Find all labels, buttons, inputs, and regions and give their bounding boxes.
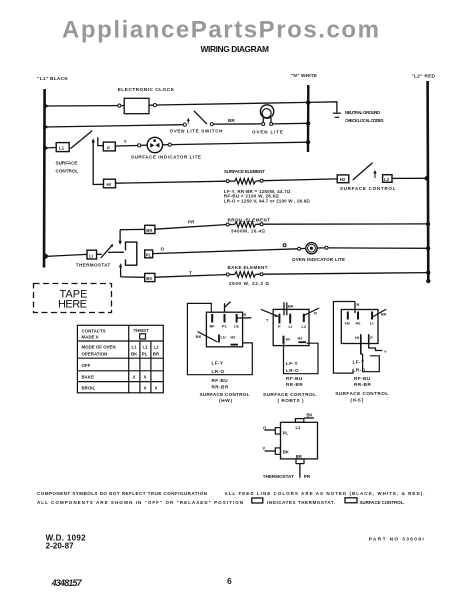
K-S terminal HI [360,334,362,354]
svg-text:O: O [161,246,165,251]
svg-text:P: P [107,145,110,150]
svg-text:L1: L1 [143,345,149,350]
wire L1 to surface control terminal [45,147,56,150]
svg-text:3400W, 16.4Ω: 3400W, 16.4Ω [231,229,266,234]
K-S terminal H2a [347,312,349,320]
svg-text:PL: PL [146,252,152,257]
svg-text:SURFACE CONTROL: SURFACE CONTROL [200,392,250,397]
H-W body box [206,312,242,347]
svg-text:BK: BK [288,303,294,308]
lamp surface indicator lite [131,137,201,159]
K-S body box [341,310,378,344]
junction N indicator row [306,140,310,144]
wire L1 to electronic clock [45,105,119,107]
wire HI to surface element [116,181,226,183]
svg-text:LF-Y: LF-Y [353,360,365,365]
H-W terminal LU [218,335,220,343]
surface control common wire to HI [92,140,104,185]
terminal BR [145,225,155,233]
junction N clock row [306,100,311,105]
svg-text:2500 W, 22.3 Ω: 2500 W, 22.3 Ω [229,281,270,286]
svg-text:PART NO 33608I: PART NO 33608I [369,537,425,543]
svg-text:WIRING DIAGRAM: WIRING DIAGRAM [201,44,270,54]
K-S terminal H2b [357,312,359,320]
svg-text:H2: H2 [231,335,237,340]
svg-text:( ROBTS ): ( ROBTS ) [278,398,304,403]
thermostat detail body [281,422,318,459]
svg-text:X: X [144,375,147,380]
svg-text:RR-BR: RR-BR [286,382,303,387]
contacts table [77,325,163,393]
svg-text:OVEN INDICATOR LITE: OVEN INDICATOR LITE [292,257,345,262]
ROBTS loop wires [284,343,319,374]
terminal PL [145,250,153,258]
surface control terminal P [103,142,115,151]
K-S R stub [354,302,356,314]
svg-text:SURFACE CONTROL.: SURFACE CONTROL. [360,500,405,505]
svg-text:OFF: OFF [82,363,91,368]
svg-text:LR-O = 1250 V, 44.7 or 2100: LR-O = 1250 V, 44.7 or 2100 W , 26.6Ω [224,198,311,203]
svg-text:4348157: 4348157 [51,578,83,588]
resistor broil element [226,217,270,233]
H-W terminal PL with blade [224,314,226,323]
svg-text:R: R [357,302,360,307]
svg-text:BK: BK [283,450,289,455]
svg-text:R: R [314,311,317,316]
ROBTS terminal HI [283,336,285,344]
svg-text:RF-BU: RF-BU [286,376,303,381]
surface control terminal H2 [337,175,349,183]
svg-text:L1: L1 [154,345,160,350]
svg-text:BR: BR [296,454,302,459]
svg-text:PR: PR [188,219,195,224]
svg-text:BK: BK [146,276,152,281]
svg-text:OVEN LITE: OVEN LITE [252,130,283,135]
wire thermostat to BK terminal [121,276,145,278]
svg-text:( K-S ): ( K-S ) [350,398,363,403]
svg-text:BK: BK [196,334,202,339]
svg-text:CONTACTS: CONTACTS [82,329,106,334]
svg-text:2-20-87: 2-20-87 [46,542,75,551]
thermostat detail [263,413,318,479]
wire L1 to oven lite switch [45,125,184,127]
wire oven indicator to L2 [328,247,428,249]
svg-text:OPERATION: OPERATION [82,352,108,357]
thermostat terminal LI [87,250,97,259]
svg-text:MODE OF OVEN: MODE OF OVEN [82,345,116,350]
thermostat blade [97,244,114,258]
junction L2 surface element row [425,176,429,180]
ROBTS terminal P [278,314,280,324]
wire L1 to thermostat [46,254,87,256]
svg-text:BK: BK [381,312,387,317]
surface control H-W detail [187,302,252,403]
wire surface element to H2 [263,179,337,181]
svg-text:LF-Y: LF-Y [286,361,298,366]
svg-text:R: R [244,312,247,317]
thermostat detail top tab L1 [295,419,303,423]
svg-text:RF-BU: RF-BU [212,378,229,383]
svg-text:Y: Y [263,446,266,451]
oven lite switch [170,111,224,134]
svg-text:INDICATES THERMOSTAT.: INDICATES THERMOSTAT. [267,500,335,505]
svg-text:( H-W ): ( H-W ) [219,398,232,403]
svg-text:BROIL: BROIL [82,385,96,390]
svg-text:LI: LI [370,321,373,326]
ROBTS terminal LI [289,314,291,324]
H-W terminal LE with R wire [236,314,238,323]
svg-text:SURFACE CONTROL: SURFACE CONTROL [335,391,388,396]
svg-text:P: P [370,335,373,340]
wire PL to oven indicator with O label [153,246,298,253]
surface control terminal L1 [56,143,69,152]
svg-text:LI: LI [89,253,93,258]
wire P to surface indicator lite [115,145,137,148]
neutral ground [308,102,384,123]
surface control terminal HI [104,179,116,188]
K-S terminal P with Y wire [368,334,370,345]
wire BR to broil element with PR label [155,219,226,229]
ROBTS terminal L2 with R blade [303,314,305,322]
svg-text:"L1" BLACK: "L1" BLACK [37,76,68,82]
junction L2 indicator row [426,246,430,250]
svg-text:SURFACE CONTROL: SURFACE CONTROL [263,392,316,397]
surface control K-S detail [333,302,388,403]
svg-text:CHECK LOCAL CODES: CHECK LOCAL CODES [345,118,384,123]
junction L2 broil row [426,222,430,226]
svg-text:L1: L1 [132,345,138,350]
junction L1 thermostat row [44,253,50,261]
H-W terminal RF [211,314,213,323]
ROBTS T blade [261,309,278,316]
surface control blade H2-L2 [353,163,373,180]
junction L1 oven lite row [43,124,48,131]
surface control label left [56,161,79,174]
lamp oven lite [252,105,283,135]
junction N oven lite row [306,121,310,125]
svg-text:6: 6 [227,576,232,586]
svg-text:H2: H2 [340,177,346,182]
svg-text:ALL FEED LINE COLORS ARE: ALL FEED LINE COLORS ARE AS NOTED (BLACK… [225,491,425,496]
K-S terminal LI with BK blade [371,312,373,320]
svg-text:PL: PL [283,430,289,435]
tape here box [34,284,112,313]
title WIRING DIAGRAM [201,44,270,54]
resistor bake element [226,265,269,286]
svg-text:ALL COMPONENTS ARE SHOWN I: ALL COMPONENTS ARE SHOWN IN "OFF" OR "RE… [37,500,243,505]
wire blade to thermostat body [108,251,124,253]
svg-text:HI: HI [355,335,359,340]
svg-text:LF-Y: LF-Y [212,361,224,366]
svg-text:BK: BK [307,413,313,418]
svg-text:ELECTRONIC CLOCK: ELECTRONIC CLOCK [118,87,175,93]
electronic clock [118,87,175,114]
svg-text:H2: H2 [298,336,304,341]
K-S inner loop [361,354,380,371]
thermostat legend square [252,498,263,503]
svg-text:RF: RF [210,324,216,329]
svg-text:X: X [133,375,136,380]
arrow at L2 terminal [374,171,376,178]
wire clock to N [157,102,309,105]
svg-text:Y: Y [124,139,127,144]
svg-text:PL: PL [222,324,228,329]
thermostat body [126,242,137,265]
svg-text:P: P [278,324,281,329]
svg-text:L1: L1 [59,146,65,151]
wire BR switch to oven lite [213,118,261,124]
wire BK to bake element with T label [155,270,226,277]
svg-text:LE: LE [234,324,239,329]
svg-text:OVEN LITE SWITCH: OVEN LITE SWITCH [170,128,224,133]
node N feed line [291,73,318,152]
svg-text:PR: PR [304,474,311,479]
svg-text:PL: PL [142,352,148,357]
notes text [37,491,424,505]
svg-text:THERMOSTAT: THERMOSTAT [76,263,111,268]
surface control blade [71,131,93,149]
drawing number [46,534,87,551]
svg-text:BK: BK [131,352,138,357]
svg-text:LR-O: LR-O [353,367,366,372]
node L2 feed line [412,74,436,284]
svg-text:SURFACE INDICATOR LITE: SURFACE INDICATOR LITE [131,154,201,159]
svg-text:HERE: HERE [58,298,87,310]
node L1 feed line [37,76,68,268]
wire L2 terminal to L2 feed [392,177,427,179]
thermostat contact upper [119,230,121,244]
site logo [62,17,379,44]
svg-text:MADE X: MADE X [82,334,99,339]
terminal BK [145,273,155,281]
svg-text:Y: Y [384,349,387,354]
svg-text:RF-BU: RF-BU [354,376,371,381]
svg-text:BR: BR [228,118,235,123]
ROBTS body box [273,309,309,345]
junction L2 bake row [426,270,430,274]
lamp oven indicator lite [283,243,345,263]
svg-text:"L2" RED: "L2" RED [412,74,436,80]
svg-text:LU: LU [221,335,226,340]
svg-text:X: X [155,385,158,390]
svg-text:CONTROL: CONTROL [56,169,79,174]
wire indicator lamp to N [171,142,308,144]
junction L1 clock row [44,103,49,110]
surface control legend square [345,498,357,503]
thermostat detail left tab BK with Y wire [275,448,280,454]
svg-text:BAKE ELEMENT: BAKE ELEMENT [228,265,268,270]
svg-text:LR-O: LR-O [286,368,299,373]
wire oven lite to N [273,122,308,125]
svg-text:HI: HI [286,337,290,342]
svg-text:H2: H2 [356,321,362,326]
svg-text:"N" WHITE: "N" WHITE [291,73,318,79]
junction L1 surface control row [43,145,48,152]
svg-text:X: X [144,385,147,390]
H-W outer wire loop [187,303,252,374]
svg-text:BAKE: BAKE [82,375,95,380]
wire broil element to L2 [263,223,428,225]
svg-text:BR: BR [146,228,152,233]
svg-text:NEUTRAL GROUND: NEUTRAL GROUND [345,110,380,115]
surface control terminal L2 [383,175,392,183]
K-S outer loop [333,302,354,374]
svg-text:LR-O: LR-O [212,369,225,374]
thermostat contact lower [119,265,121,277]
resistor surface element [224,169,311,203]
svg-text:THERMOSTAT: THERMOSTAT [263,474,294,479]
svg-text:SURFACE CONTROL: SURFACE CONTROL [340,186,396,191]
svg-text:L1: L1 [296,425,302,430]
surface control ROBTS detail [261,302,320,403]
svg-text:THMST: THMST [134,328,149,333]
svg-text:L2: L2 [384,177,390,182]
wire to P terminal [98,137,103,145]
svg-text:RR-BR: RR-BR [354,382,371,387]
wire bake element to L2 [263,273,428,275]
svg-text:COMPONENT SYMBOLS DO NOT R: COMPONENT SYMBOLS DO NOT REFLECT TRUE CO… [37,491,207,496]
thermostat detail left tab PL with O wire [275,428,280,434]
svg-text:BR: BR [153,352,160,357]
svg-text:RR-BR: RR-BR [212,384,229,389]
svg-text:SURFACE ELEMENT: SURFACE ELEMENT [224,169,265,174]
svg-text:HI: HI [107,182,111,187]
svg-text:AppliancePartsPros.com: AppliancePartsPros.com [62,17,379,44]
wire thermostat to BR terminal [120,228,145,230]
svg-text:BROIL ELEMENT: BROIL ELEMENT [228,217,271,222]
svg-text:LI: LI [289,324,292,329]
svg-text:T: T [189,270,192,275]
svg-text:H2: H2 [345,321,351,326]
svg-text:SURFACE: SURFACE [56,161,78,166]
